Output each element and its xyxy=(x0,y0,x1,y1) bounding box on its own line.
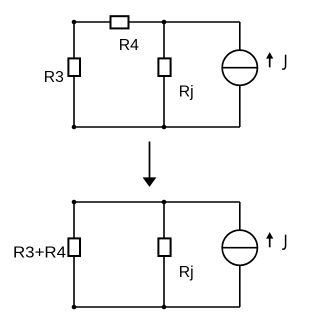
svg-text:R4: R4 xyxy=(119,37,139,54)
svg-text:R3+R4: R3+R4 xyxy=(13,245,66,262)
svg-text:Rj: Rj xyxy=(179,83,194,100)
svg-text:R3: R3 xyxy=(44,69,64,86)
svg-text:Rj: Rj xyxy=(179,264,194,281)
